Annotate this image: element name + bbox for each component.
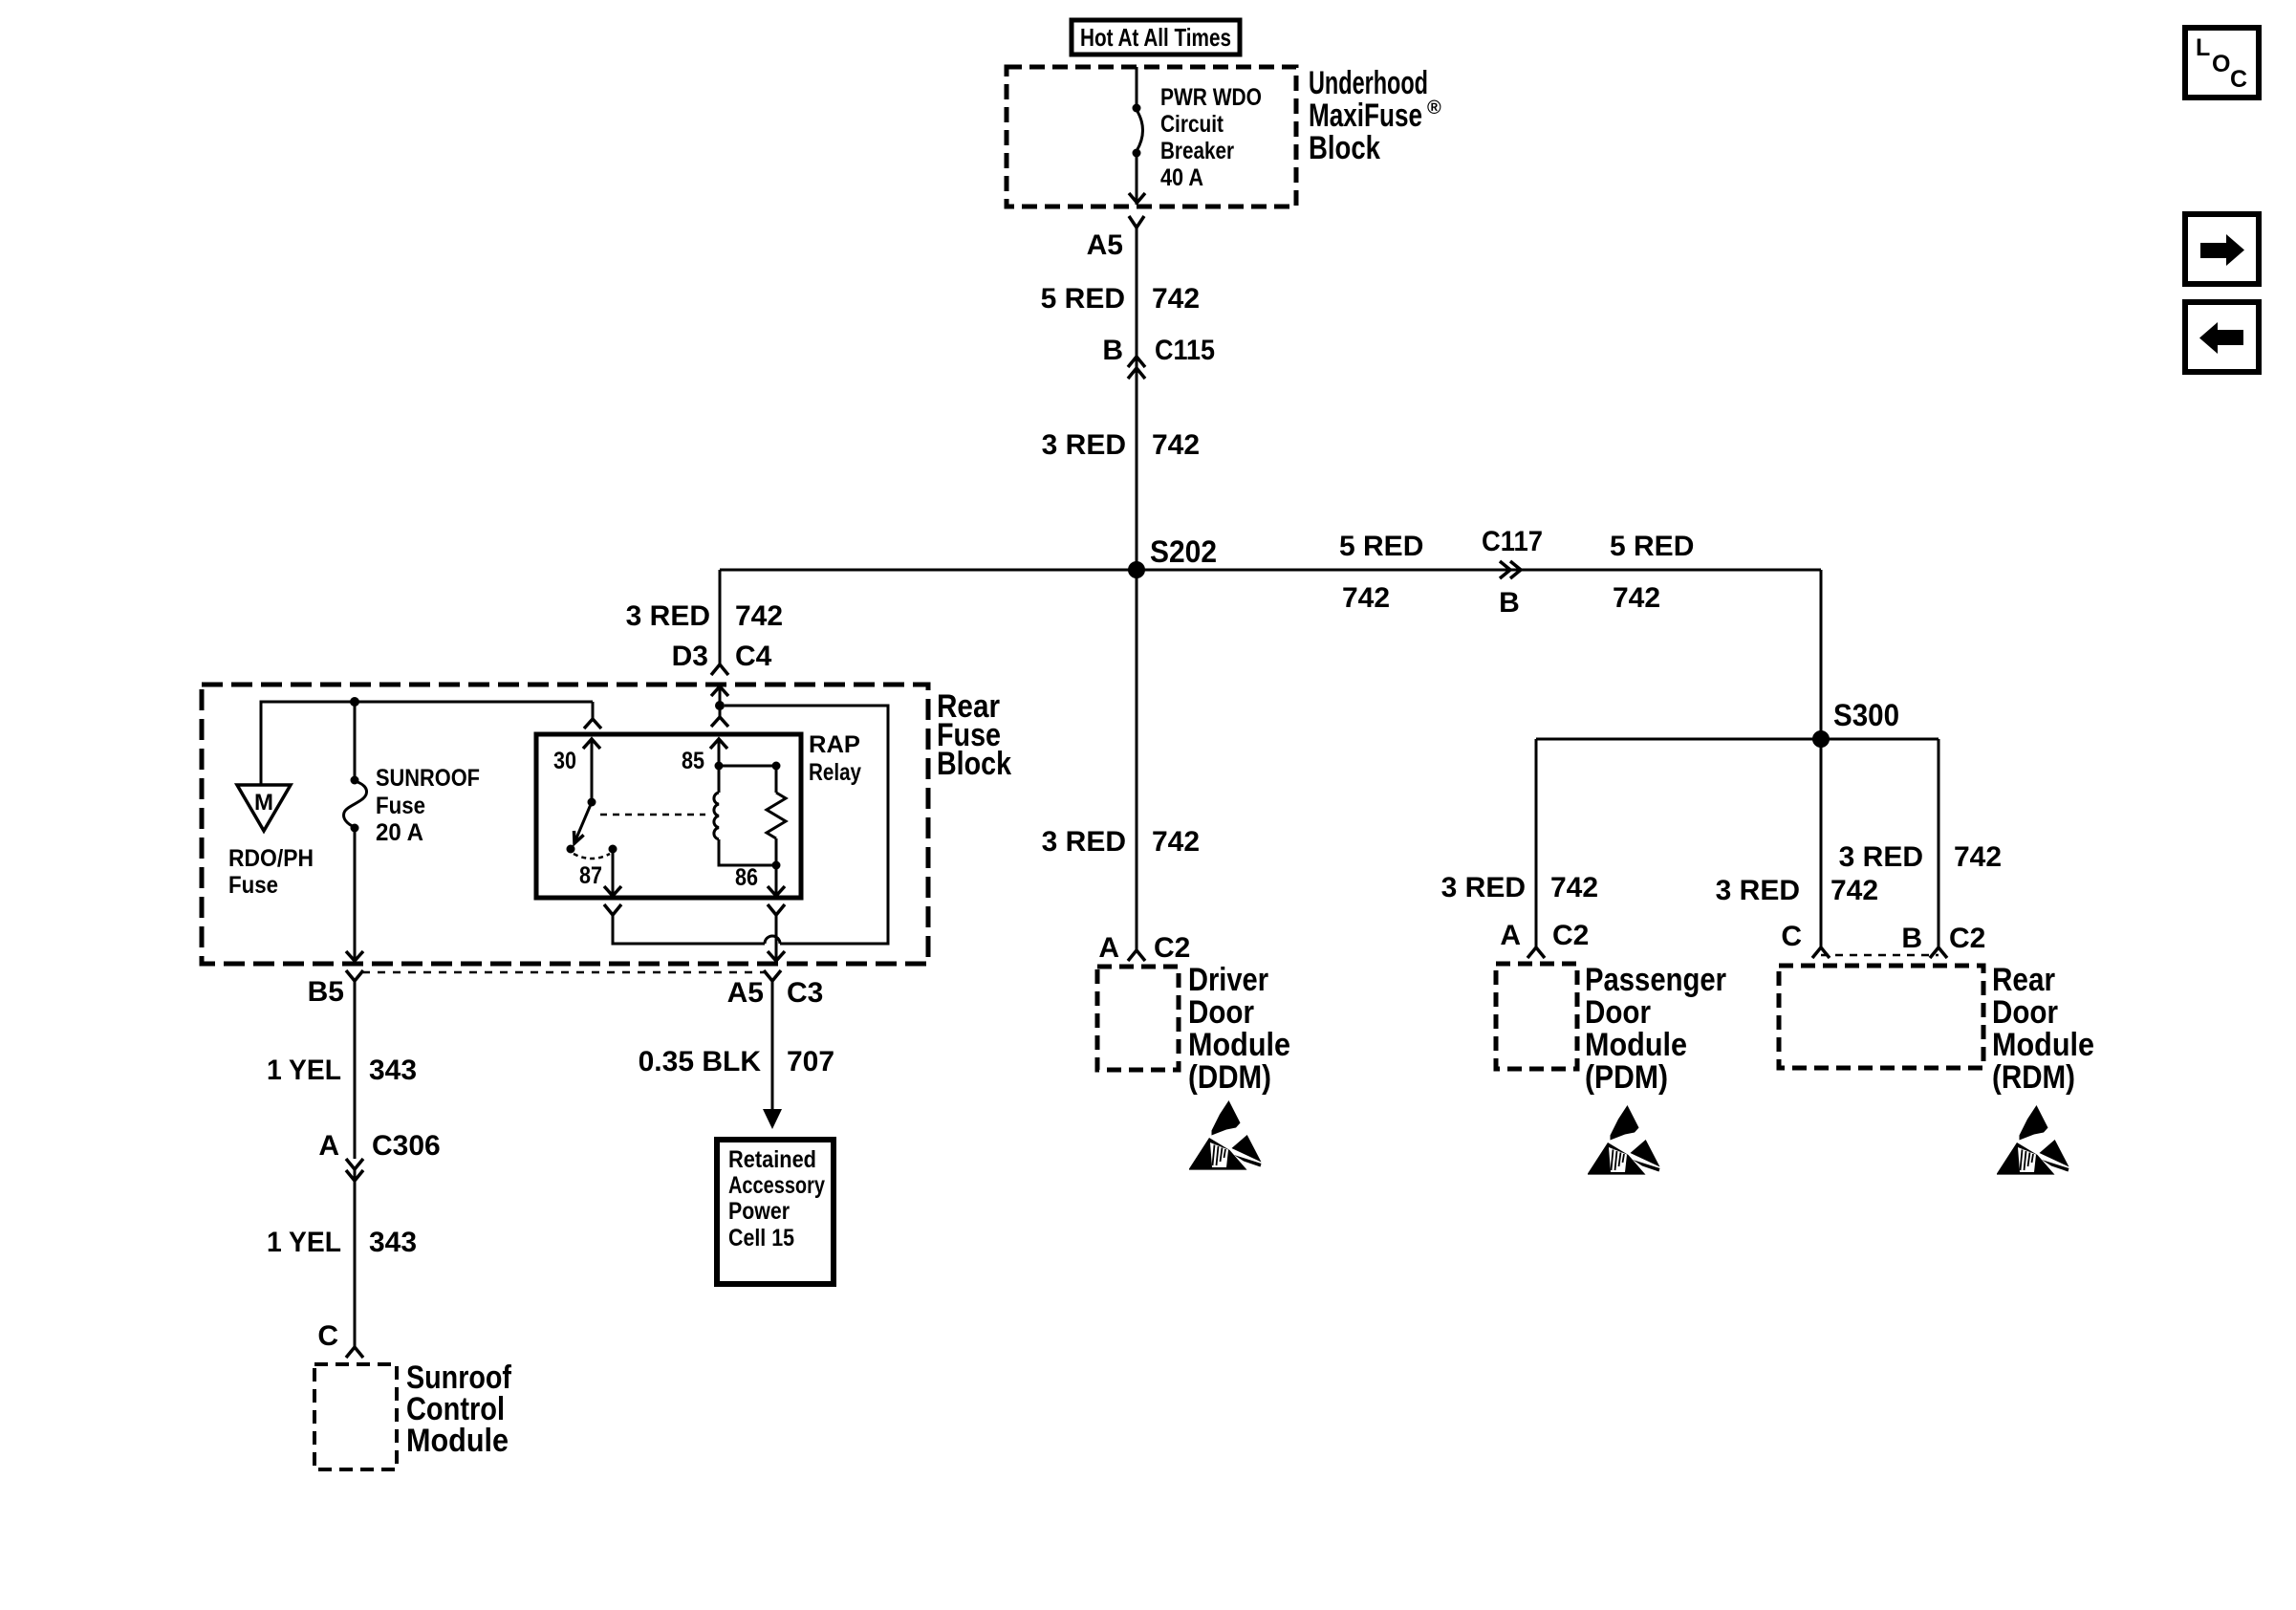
- RDO/PH fuse (M triangle): [237, 785, 291, 831]
- label 3 RED 742 (RDM B): [1839, 841, 2002, 873]
- svg-text:A: A: [318, 1130, 339, 1162]
- SUNROOF fuse 20 A: [344, 702, 367, 833]
- svg-text:Power: Power: [728, 1198, 790, 1225]
- svg-text:C: C: [2230, 66, 2247, 93]
- svg-text:3 RED: 3 RED: [626, 600, 710, 632]
- label 3 RED 742 (branch): [626, 600, 783, 632]
- svg-text:Door: Door: [1188, 994, 1254, 1031]
- svg-text:1 YEL: 1 YEL: [267, 1055, 341, 1086]
- svg-text:C2: C2: [1552, 920, 1589, 951]
- svg-text:S300: S300: [1833, 698, 1899, 732]
- label Driver Door Module (DDM): [1188, 962, 1290, 1096]
- label Sunroof Control Module: [406, 1360, 512, 1459]
- wire 1 YEL 343 (B5 to C306): [354, 992, 357, 1159]
- connector chevron at RDM C: [1812, 947, 1830, 958]
- relay resistor: [719, 762, 786, 870]
- svg-text:742: 742: [1152, 283, 1200, 315]
- svg-text:40 A: 40 A: [1160, 164, 1203, 191]
- svg-text:C117: C117: [1482, 526, 1543, 557]
- splice S202: [1128, 561, 1145, 578]
- wire pin 87 with exit arrow: [604, 849, 621, 896]
- wire drop from S202 to DDM: [1136, 570, 1138, 950]
- connector A5/C3 chevron below fuse block: [764, 970, 781, 992]
- svg-text:Relay: Relay: [809, 759, 861, 786]
- wire 1 YEL 343 (C306 to sunroof module): [354, 1169, 357, 1347]
- wire entry arrow at C4 inside fuse block: [711, 686, 728, 706]
- Driver Door Module dashed box: [1097, 967, 1179, 1070]
- dashed alternate contact arc: [574, 854, 610, 859]
- svg-text:Driver: Driver: [1188, 962, 1268, 998]
- svg-text:3 RED: 3 RED: [1042, 826, 1126, 858]
- svg-text:742: 742: [1954, 841, 2002, 873]
- wire branch down to D3/C4: [719, 570, 722, 664]
- svg-text:Door: Door: [1585, 994, 1651, 1031]
- label A C2 (DDM): [1098, 932, 1190, 964]
- node junction above RAP relay pin 85: [715, 701, 725, 710]
- wire hot feed into circuit breaker: [1136, 67, 1138, 109]
- label 3 RED 742 (DDM): [1042, 826, 1200, 858]
- svg-text:Breaker: Breaker: [1160, 138, 1234, 164]
- svg-text:0.35 BLK: 0.35 BLK: [639, 1046, 762, 1077]
- svg-text:86: 86: [735, 864, 758, 891]
- wire sunroof fuse output with exit arrow: [346, 828, 363, 961]
- wire drop to RDM pin C: [1820, 739, 1823, 947]
- Retained Accessory Power Cell 15 box: [717, 1140, 834, 1284]
- label Rear Fuse Block: [937, 688, 1011, 782]
- svg-text:343: 343: [369, 1055, 417, 1086]
- label Passenger Door Module (PDM): [1585, 962, 1726, 1096]
- svg-text:20 A: 20 A: [376, 819, 423, 846]
- svg-text:3 RED: 3 RED: [1839, 841, 1923, 873]
- inline connector C117 double chevron: [1500, 561, 1521, 578]
- svg-text:®: ®: [1427, 98, 1441, 119]
- svg-text:Module: Module: [1585, 1027, 1687, 1063]
- ESD symbol (PDM): [1588, 1105, 1660, 1175]
- relay contact 87 dots: [567, 845, 617, 854]
- svg-text:PWR WDO: PWR WDO: [1160, 84, 1262, 111]
- label Underhood MaxiFuse Block: [1309, 65, 1441, 166]
- svg-text:30: 30: [553, 748, 576, 774]
- connector boundary dashed line B5 to A5: [362, 971, 765, 974]
- RAP Relay box: [536, 734, 801, 898]
- svg-text:C2: C2: [1949, 923, 1985, 954]
- svg-text:C4: C4: [735, 641, 772, 672]
- svg-text:3 RED: 3 RED: [1716, 875, 1800, 906]
- label Rear Door Module (RDM): [1992, 962, 2094, 1096]
- label C117 B: [1482, 526, 1543, 619]
- svg-text:Module: Module: [406, 1423, 509, 1459]
- inline connector C306 double chevron: [346, 1159, 363, 1181]
- label PWR WDO Circuit Breaker 40 A: [1160, 84, 1262, 191]
- svg-text:3 RED: 3 RED: [1042, 429, 1126, 461]
- svg-text:(DDM): (DDM): [1188, 1059, 1271, 1096]
- svg-text:M: M: [254, 790, 273, 816]
- Rear Fuse Block dashed box: [202, 685, 928, 964]
- Passenger Door Module dashed box: [1496, 964, 1577, 1069]
- svg-text:Passenger: Passenger: [1585, 962, 1726, 998]
- connector boundary dashed line at RDM: [1821, 954, 1939, 957]
- svg-text:5 RED: 5 RED: [1339, 531, 1423, 562]
- label 3 RED 742 (C115 to S202): [1042, 429, 1200, 461]
- label 5 RED 742 (left of C117): [1339, 531, 1423, 614]
- svg-text:O: O: [2212, 51, 2230, 77]
- label RDO/PH Fuse: [228, 845, 314, 899]
- svg-text:Hot At All Times: Hot At All Times: [1080, 23, 1231, 52]
- forward arrow icon: [2185, 214, 2259, 284]
- svg-text:C115: C115: [1155, 335, 1215, 366]
- wire main horizontal bus at S202: [720, 569, 1821, 572]
- svg-text:742: 742: [1830, 875, 1878, 906]
- label Retained Accessory Power Cell 15: [728, 1146, 825, 1251]
- svg-text:B: B: [1102, 335, 1123, 366]
- svg-text:B: B: [1499, 587, 1520, 619]
- wire S300 horizontal bus: [1536, 738, 1939, 741]
- svg-text:C2: C2: [1154, 932, 1190, 964]
- svg-text:Module: Module: [1188, 1027, 1290, 1063]
- connector chevron at sunroof module: [346, 1347, 363, 1358]
- power source box "Hot At All Times": [1072, 20, 1240, 54]
- label RAP Relay: [809, 731, 861, 786]
- svg-text:A: A: [1500, 920, 1521, 951]
- svg-text:C306: C306: [372, 1130, 441, 1162]
- svg-text:B5: B5: [308, 976, 344, 1008]
- svg-text:Retained: Retained: [728, 1146, 816, 1173]
- svg-text:742: 742: [1550, 872, 1598, 903]
- node fuse tap junction: [350, 697, 359, 707]
- svg-text:S202: S202: [1150, 534, 1217, 569]
- svg-text:(PDM): (PDM): [1585, 1059, 1668, 1096]
- svg-text:Door: Door: [1992, 994, 2058, 1031]
- LOC reference icon: [2185, 28, 2259, 98]
- svg-text:Accessory: Accessory: [728, 1172, 825, 1199]
- connector A5 chevron: [1129, 216, 1144, 228]
- connector chevron above pin 30: [584, 702, 601, 729]
- wire 87 branch to feed node: [613, 915, 765, 944]
- svg-text:707: 707: [787, 1046, 834, 1077]
- svg-text:Underhood: Underhood: [1309, 65, 1428, 101]
- relay pin 30 contact arm: [583, 739, 600, 807]
- svg-text:RDO/PH: RDO/PH: [228, 845, 314, 872]
- wire hop over 86 wire: [765, 936, 780, 944]
- back arrow icon: [2185, 302, 2259, 372]
- svg-text:742: 742: [1152, 429, 1200, 461]
- svg-text:Block: Block: [1309, 130, 1380, 166]
- connector chevron below pin 86: [768, 904, 785, 915]
- Sunroof Control Module dashed box: [314, 1364, 397, 1469]
- relay coil: [710, 739, 776, 865]
- svg-text:1 YEL: 1 YEL: [267, 1227, 341, 1258]
- svg-text:D3: D3: [672, 641, 708, 672]
- ESD symbol (DDM): [1189, 1100, 1262, 1170]
- svg-text:Fuse: Fuse: [376, 793, 425, 819]
- svg-text:C: C: [317, 1320, 338, 1352]
- solid arrow into RAP cell: [763, 1109, 782, 1129]
- Underhood MaxiFuse Block dashed box: [1007, 67, 1296, 207]
- label B C2 (RDM): [1901, 923, 1985, 954]
- wire pin 86 with exit arrow: [768, 865, 785, 896]
- wire C117 down to S300: [1820, 570, 1823, 739]
- svg-text:A5: A5: [1087, 229, 1123, 261]
- inline connector C115 double chevron: [1128, 357, 1145, 379]
- svg-text:742: 742: [1613, 582, 1660, 614]
- svg-text:A: A: [1098, 932, 1119, 964]
- label 5 RED 742: [1041, 283, 1200, 315]
- connector chevron at PDM: [1527, 947, 1545, 958]
- svg-text:Rear: Rear: [1992, 962, 2055, 998]
- svg-text:87: 87: [579, 862, 602, 889]
- label A C2 (PDM): [1500, 920, 1589, 951]
- connector B5 chevron below fuse block: [346, 970, 363, 992]
- connector chevron at RDM B: [1930, 947, 1947, 958]
- relay armature arrow: [574, 802, 593, 843]
- wire inner top bus (fuses to pin 30): [261, 702, 593, 785]
- svg-text:5 RED: 5 RED: [1041, 283, 1125, 315]
- svg-text:343: 343: [369, 1227, 417, 1258]
- svg-text:C3: C3: [787, 977, 823, 1009]
- svg-text:L: L: [2196, 34, 2210, 61]
- circuit breaker PWR WDO 40 A: [1133, 104, 1143, 158]
- wire drop to PDM: [1535, 739, 1538, 947]
- ESD symbol (RDM): [1997, 1105, 2069, 1175]
- label 0.35 BLK 707: [639, 1046, 834, 1077]
- svg-text:5 RED: 5 RED: [1610, 531, 1694, 562]
- svg-text:742: 742: [1342, 582, 1390, 614]
- label D3 C4: [672, 641, 772, 672]
- label B C115: [1102, 335, 1215, 366]
- label 3 RED 742 (PDM): [1441, 872, 1598, 903]
- connector C4 chevron: [711, 664, 728, 675]
- svg-text:Block: Block: [937, 746, 1011, 782]
- label A5 C3: [727, 977, 824, 1009]
- connector chevron below pin 87: [604, 904, 621, 915]
- svg-text:MaxiFuse: MaxiFuse: [1309, 98, 1422, 134]
- label SUNROOF Fuse 20 A: [376, 765, 480, 846]
- svg-text:A5: A5: [727, 977, 764, 1009]
- wire continuing up to feed junction: [725, 706, 888, 944]
- dashed mechanical link to coil: [600, 814, 705, 816]
- connector chevron above pin 85: [711, 706, 728, 727]
- label 1 YEL 343: [267, 1055, 417, 1086]
- svg-text:Cell 15: Cell 15: [728, 1225, 794, 1251]
- svg-text:Module: Module: [1992, 1027, 2094, 1063]
- svg-text:B: B: [1901, 923, 1922, 954]
- wire drop to RDM pin B: [1938, 739, 1940, 947]
- svg-text:Fuse: Fuse: [228, 872, 278, 899]
- label 1 YEL 343: [267, 1227, 417, 1258]
- svg-text:85: 85: [682, 748, 704, 774]
- label 5 RED 742 (right of C117): [1610, 531, 1694, 614]
- svg-text:Circuit: Circuit: [1160, 111, 1224, 138]
- svg-text:3 RED: 3 RED: [1441, 872, 1526, 903]
- label 3 RED 742 (RDM C): [1716, 875, 1878, 906]
- wire 0.35 BLK 707: [771, 992, 774, 1111]
- wire 5 RED 742 from A5 to C115: [1136, 228, 1138, 570]
- Rear Door Module dashed box: [1779, 966, 1983, 1068]
- label A C306: [318, 1130, 440, 1162]
- svg-text:RAP: RAP: [809, 731, 860, 758]
- connector chevron at DDM: [1128, 950, 1145, 961]
- svg-text:(RDM): (RDM): [1992, 1059, 2075, 1096]
- svg-text:742: 742: [735, 600, 783, 632]
- svg-text:C: C: [1781, 921, 1802, 952]
- svg-text:742: 742: [1152, 826, 1200, 858]
- wire pin 86 to fuse block exit with arrow: [768, 915, 785, 961]
- wire breaker output with exit arrow: [1129, 155, 1145, 205]
- svg-text:SUNROOF: SUNROOF: [376, 765, 480, 792]
- splice S300: [1812, 730, 1830, 748]
